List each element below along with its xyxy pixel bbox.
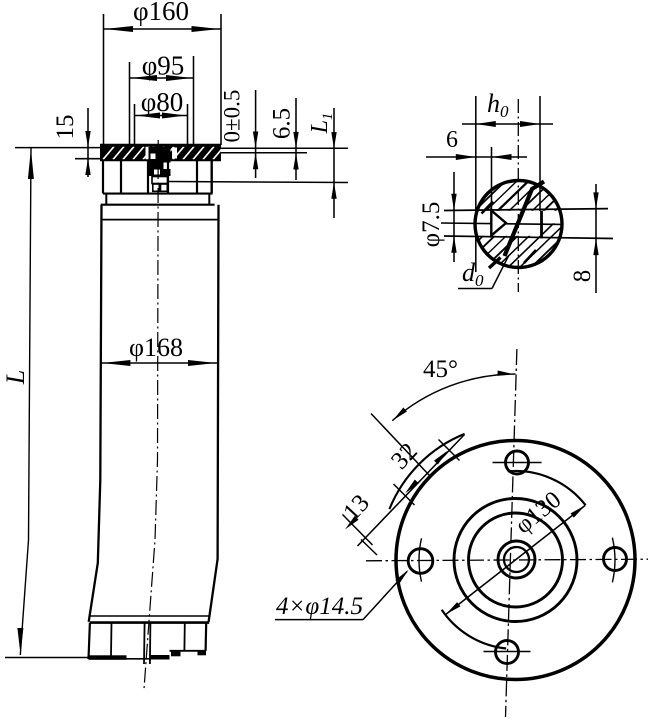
- dimension 15: [52, 108, 100, 177]
- cylinder centerline: [144, 140, 158, 689]
- bolt hole bottom: [484, 641, 531, 664]
- bolt hole right: [604, 538, 627, 583]
- detail vertical centerline: [517, 99, 519, 292]
- vertical key feature: [540, 211, 543, 239]
- small rectangles under hub: [152, 177, 168, 192]
- flange horizontal centerline: [366, 559, 648, 561]
- flange end view outer circle: [396, 441, 635, 680]
- dimension phi130 diagonal: [444, 486, 587, 616]
- slot bottom line: [444, 236, 613, 239]
- dimension L (overall length): [1, 148, 113, 658]
- dimension 45 degrees arc: [391, 356, 515, 422]
- V notch: [491, 211, 506, 236]
- svg-text:15: 15: [52, 115, 79, 140]
- dimension h0: [462, 89, 553, 272]
- dimension 32: [358, 435, 465, 547]
- flange vertical centerline: [506, 349, 517, 717]
- flange lower ring: [101, 194, 215, 205]
- svg-text:L: L: [1, 370, 30, 385]
- dimension 8: [569, 184, 599, 293]
- bolt hole top: [493, 451, 542, 474]
- svg-text:6: 6: [446, 127, 458, 153]
- dimension 6.5: [269, 98, 299, 180]
- 45 degree ray: [371, 414, 430, 476]
- surface extension lines right: [168, 148, 348, 182]
- hub circle: [498, 541, 535, 578]
- dimension 0 plus-minus 0.5: [220, 90, 259, 178]
- cable tab arc: [389, 434, 464, 509]
- svg-text:φ7.5: φ7.5: [418, 202, 445, 248]
- cylinder body phi168 outline: [89, 205, 219, 622]
- flange plate hatched gasket: [100, 145, 224, 160]
- boss circle inner: [469, 513, 563, 607]
- svg-text:6.5: 6.5: [269, 108, 296, 139]
- dimension phi168: [101, 333, 217, 366]
- base block bottom: [89, 616, 210, 664]
- svg-text:45°: 45°: [423, 356, 458, 383]
- dimension phi95: [130, 51, 194, 146]
- svg-text:8: 8: [569, 270, 596, 283]
- dimension 13: [338, 490, 377, 555]
- svg-text:φ95: φ95: [142, 51, 185, 81]
- dimension phi160: [104, 0, 222, 145]
- svg-text:φ160: φ160: [133, 0, 189, 26]
- svg-text:4×φ14.5: 4×φ14.5: [276, 593, 363, 620]
- slot top line: [444, 209, 608, 211]
- label 4 x phi14.5 with leader: [275, 568, 410, 620]
- dimension 6: [426, 127, 527, 211]
- flange body with bolt sections: [103, 161, 213, 194]
- flange center hub dark detail: [149, 147, 171, 176]
- dimension phi7.5: [418, 172, 457, 262]
- svg-text:φ80: φ80: [141, 87, 184, 117]
- heavy rope strand slashes: [482, 182, 545, 269]
- svg-text:0±0.5: 0±0.5: [220, 90, 245, 143]
- dimension L1: [307, 108, 337, 218]
- boss circle outer: [454, 499, 577, 622]
- label d0 with leader: [458, 255, 509, 290]
- slot middle line / horizontal centerline: [441, 223, 562, 224]
- phi130 pitch circle arcs: [442, 471, 586, 649]
- rope cross-section circle detail: [442, 148, 595, 300]
- bolt hole left: [408, 538, 433, 581]
- dimension phi80: [135, 87, 188, 145]
- hub hole: [504, 547, 529, 572]
- svg-text:φ168: φ168: [129, 333, 183, 362]
